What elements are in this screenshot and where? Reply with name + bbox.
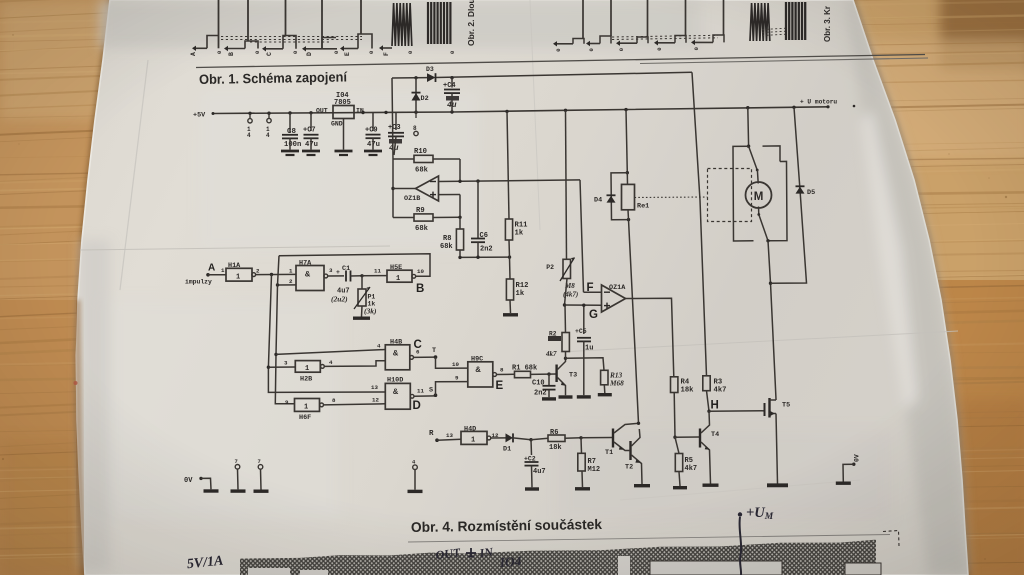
handwritten wire from +UM into PCB [740,517,742,575]
Obr.2 timing diagram channel B [224,46,228,51]
resistor R8 68k [459,217,461,229]
relay feed wire [626,110,627,173]
resistor R2 4k7 (hand-marked) [562,333,569,352]
rail junction x=565.5 [564,109,567,112]
IC supply pin 14 stub (right) [268,113,270,118]
rule under caption 4 [408,535,890,543]
dotted link relay to motor switch [635,196,708,199]
Obr.3 dashed lines near sawtooth [762,28,790,30]
resistor R7 M12 [580,438,583,454]
MOSFET T5 [764,403,766,416]
resistor R11 1k [507,111,509,219]
diode D4 loop [611,173,629,220]
rail junction x=250 [248,112,251,115]
Obr.3 sawtooth [750,3,770,41]
OZ1B output junction [391,187,394,190]
Obr.2 timing diagram channel C [262,46,266,51]
wire node T to H9C pin 10 [436,357,468,368]
Obr.2 timing diagram channel D [302,46,306,51]
handwritten IO4 [498,553,522,570]
contact bracket right [768,161,787,240]
separator line below timing diagrams [196,55,925,68]
inverter H2B [268,366,295,368]
handwritten OUT [435,545,462,562]
rail junction x=386 [384,111,387,114]
op-amp OZ1B [416,176,439,201]
handwritten IN [478,545,495,561]
node G wire to OZ1A + input [565,304,602,306]
ground under R13 [598,393,612,396]
OZ1A output wire to R4 [626,298,674,377]
ground under C7 [302,150,320,153]
resistor R5 4k7 [675,437,679,453]
transistor T4 [675,436,699,438]
Obr.3 timing diagram channel 3 [616,41,620,46]
diode D2 [415,78,417,112]
wire from node above OZ1B to R3 (top horizontal) [392,77,427,79]
Obr.2 channel F sawtooth [379,45,383,50]
trimmer P2 [566,110,567,259]
switch arm top [749,146,758,170]
left vertical bus into OZ1B section [392,78,393,218]
regulator GND lead [343,119,345,150]
bottom node wire of OZ1B filter [460,256,510,258]
OZ1B non-inverting input wire [439,194,461,196]
rail junction x=626 [624,108,627,111]
H4B output to node T [414,356,436,358]
wire C1 to H5E pin 11 [362,275,387,277]
wire V2 to H4B pin 4 [276,350,385,355]
vertical bus V1 (from H1A output) [268,275,385,393]
feedback loop top wire [279,254,430,276]
ground under C9 [364,150,382,153]
handwritten ground symbol [470,548,472,557]
Obr.3 timing diagram channel 1 [553,41,557,46]
OZ1B inverting input wire [439,180,581,182]
capacitor C3 4u (electrolytic, hand-marked) [395,112,397,130]
switch arm bottom [759,215,768,241]
diode D1 [491,437,506,439]
capacitor C4 4u [451,78,453,88]
contact stub right [763,146,781,162]
junction dots on D3 line [414,76,417,79]
transistor T2 [629,441,631,460]
Obr.3 timing diagram channel 4 [654,40,658,45]
ground under R12 [503,313,518,316]
transistor T1 [581,437,612,439]
ground under 7805 [335,150,353,153]
rail junction x=452 [450,110,453,113]
rail junction x=416 [414,111,417,114]
+5V / +U motoru power rail wire [213,107,828,114]
wire node S to H9C pin 9 [436,382,468,396]
Obr.2 timing diagram channel A [192,46,196,51]
resistor R4 18k [671,377,678,393]
handwritten +UM node [738,512,742,516]
ground under T4 [703,484,719,487]
rail junction x=794 [792,106,795,109]
rail junction x=507 [505,110,508,113]
capacitor C9 47u [372,113,374,131]
relay output vertical to T1/T2 collectors [629,220,639,424]
Obr.3 timing diagram channel 5 [691,40,695,45]
ground under R5 [673,486,687,489]
ground under T2 [634,484,650,487]
motor M [756,170,759,184]
ground under P1 [353,317,370,320]
capacitor C1 4u7 [328,275,344,277]
handwritten 5V/1A [186,554,224,573]
diode D5 [771,107,807,283]
contact bracket left [733,146,754,241]
ground under T3 [559,395,573,398]
ground under T5 [767,483,788,487]
Obr.2 pulse train bars [427,2,429,44]
capacitor C2 4u7 [530,440,533,455]
rail junction x=311 [309,111,312,114]
ground under C2 [525,487,539,490]
node H [707,410,710,413]
dashed box around motor contacts [708,169,752,222]
dashed corner of Obr.4 frame [883,531,899,547]
ground under R7 [575,487,590,490]
trimmer P1 1k [361,276,363,289]
Obr.3 pulse train bars [785,2,787,40]
op-amp OZ1A [602,285,626,312]
ground under C8 [281,150,299,153]
resistor R3 4k7 [692,72,707,376]
transistor T3 [549,373,556,375]
rail junction x=363 [361,111,364,114]
wire node H to T5 gate [709,410,765,412]
Obr.3 timing diagram channel 2 [586,41,590,46]
relay coil Re1 [626,173,628,185]
rail junction x=269 [267,112,270,115]
Obr.4 PCB hatched band [240,540,876,575]
H9C output wire [497,373,515,375]
resistor R10 68k [393,158,414,160]
resistor R6 18k [531,438,548,439]
rail junction x=290 [288,111,291,114]
ground under C5 [577,395,591,398]
H10D output to node S [414,395,436,397]
Obr.2 timing diagram channel E [340,46,344,51]
inverter H1A [208,274,226,276]
capacitor C8 100n [289,113,291,133]
capacitor C5 1u [583,305,585,334]
capacitor C7 47u [310,113,312,131]
Obr.4 white component areas inside band [650,561,782,575]
caption Obr. 4. Rozmisteni soucastek [411,516,602,535]
wire motor bottom to T5 drain [768,241,776,399]
Obr.2 dashed level lines [221,36,362,38]
motor feed wire [747,108,750,147]
vertical bus V2 (feedback loop) [275,256,294,404]
wire H1A out to H7A [256,273,296,275]
Obr.3 dashed level lines [612,35,718,37]
rail junction x=747.8 [746,106,749,109]
capacitor C6 2n2 [477,181,479,238]
H2B output wire to H4B pin 5 [324,361,385,367]
capacitor C10 2n2 [548,374,550,385]
H7A input 2 wire [278,284,297,286]
resistor R9 68k [393,217,414,219]
resistor R12 1k [509,257,512,279]
paper crease lines [80,246,390,250]
wire OZ1B node down to OZ1A inverting input (node F) [580,180,584,292]
ground under C10 [542,397,556,400]
H6F output wire to H10D pin 12 [324,404,386,405]
IC supply pin 14 stub (left) [249,114,251,119]
caption Obr. 1. Schema zapojeni [199,69,348,87]
resistor R13 M68 (hand-marked) [566,358,605,371]
